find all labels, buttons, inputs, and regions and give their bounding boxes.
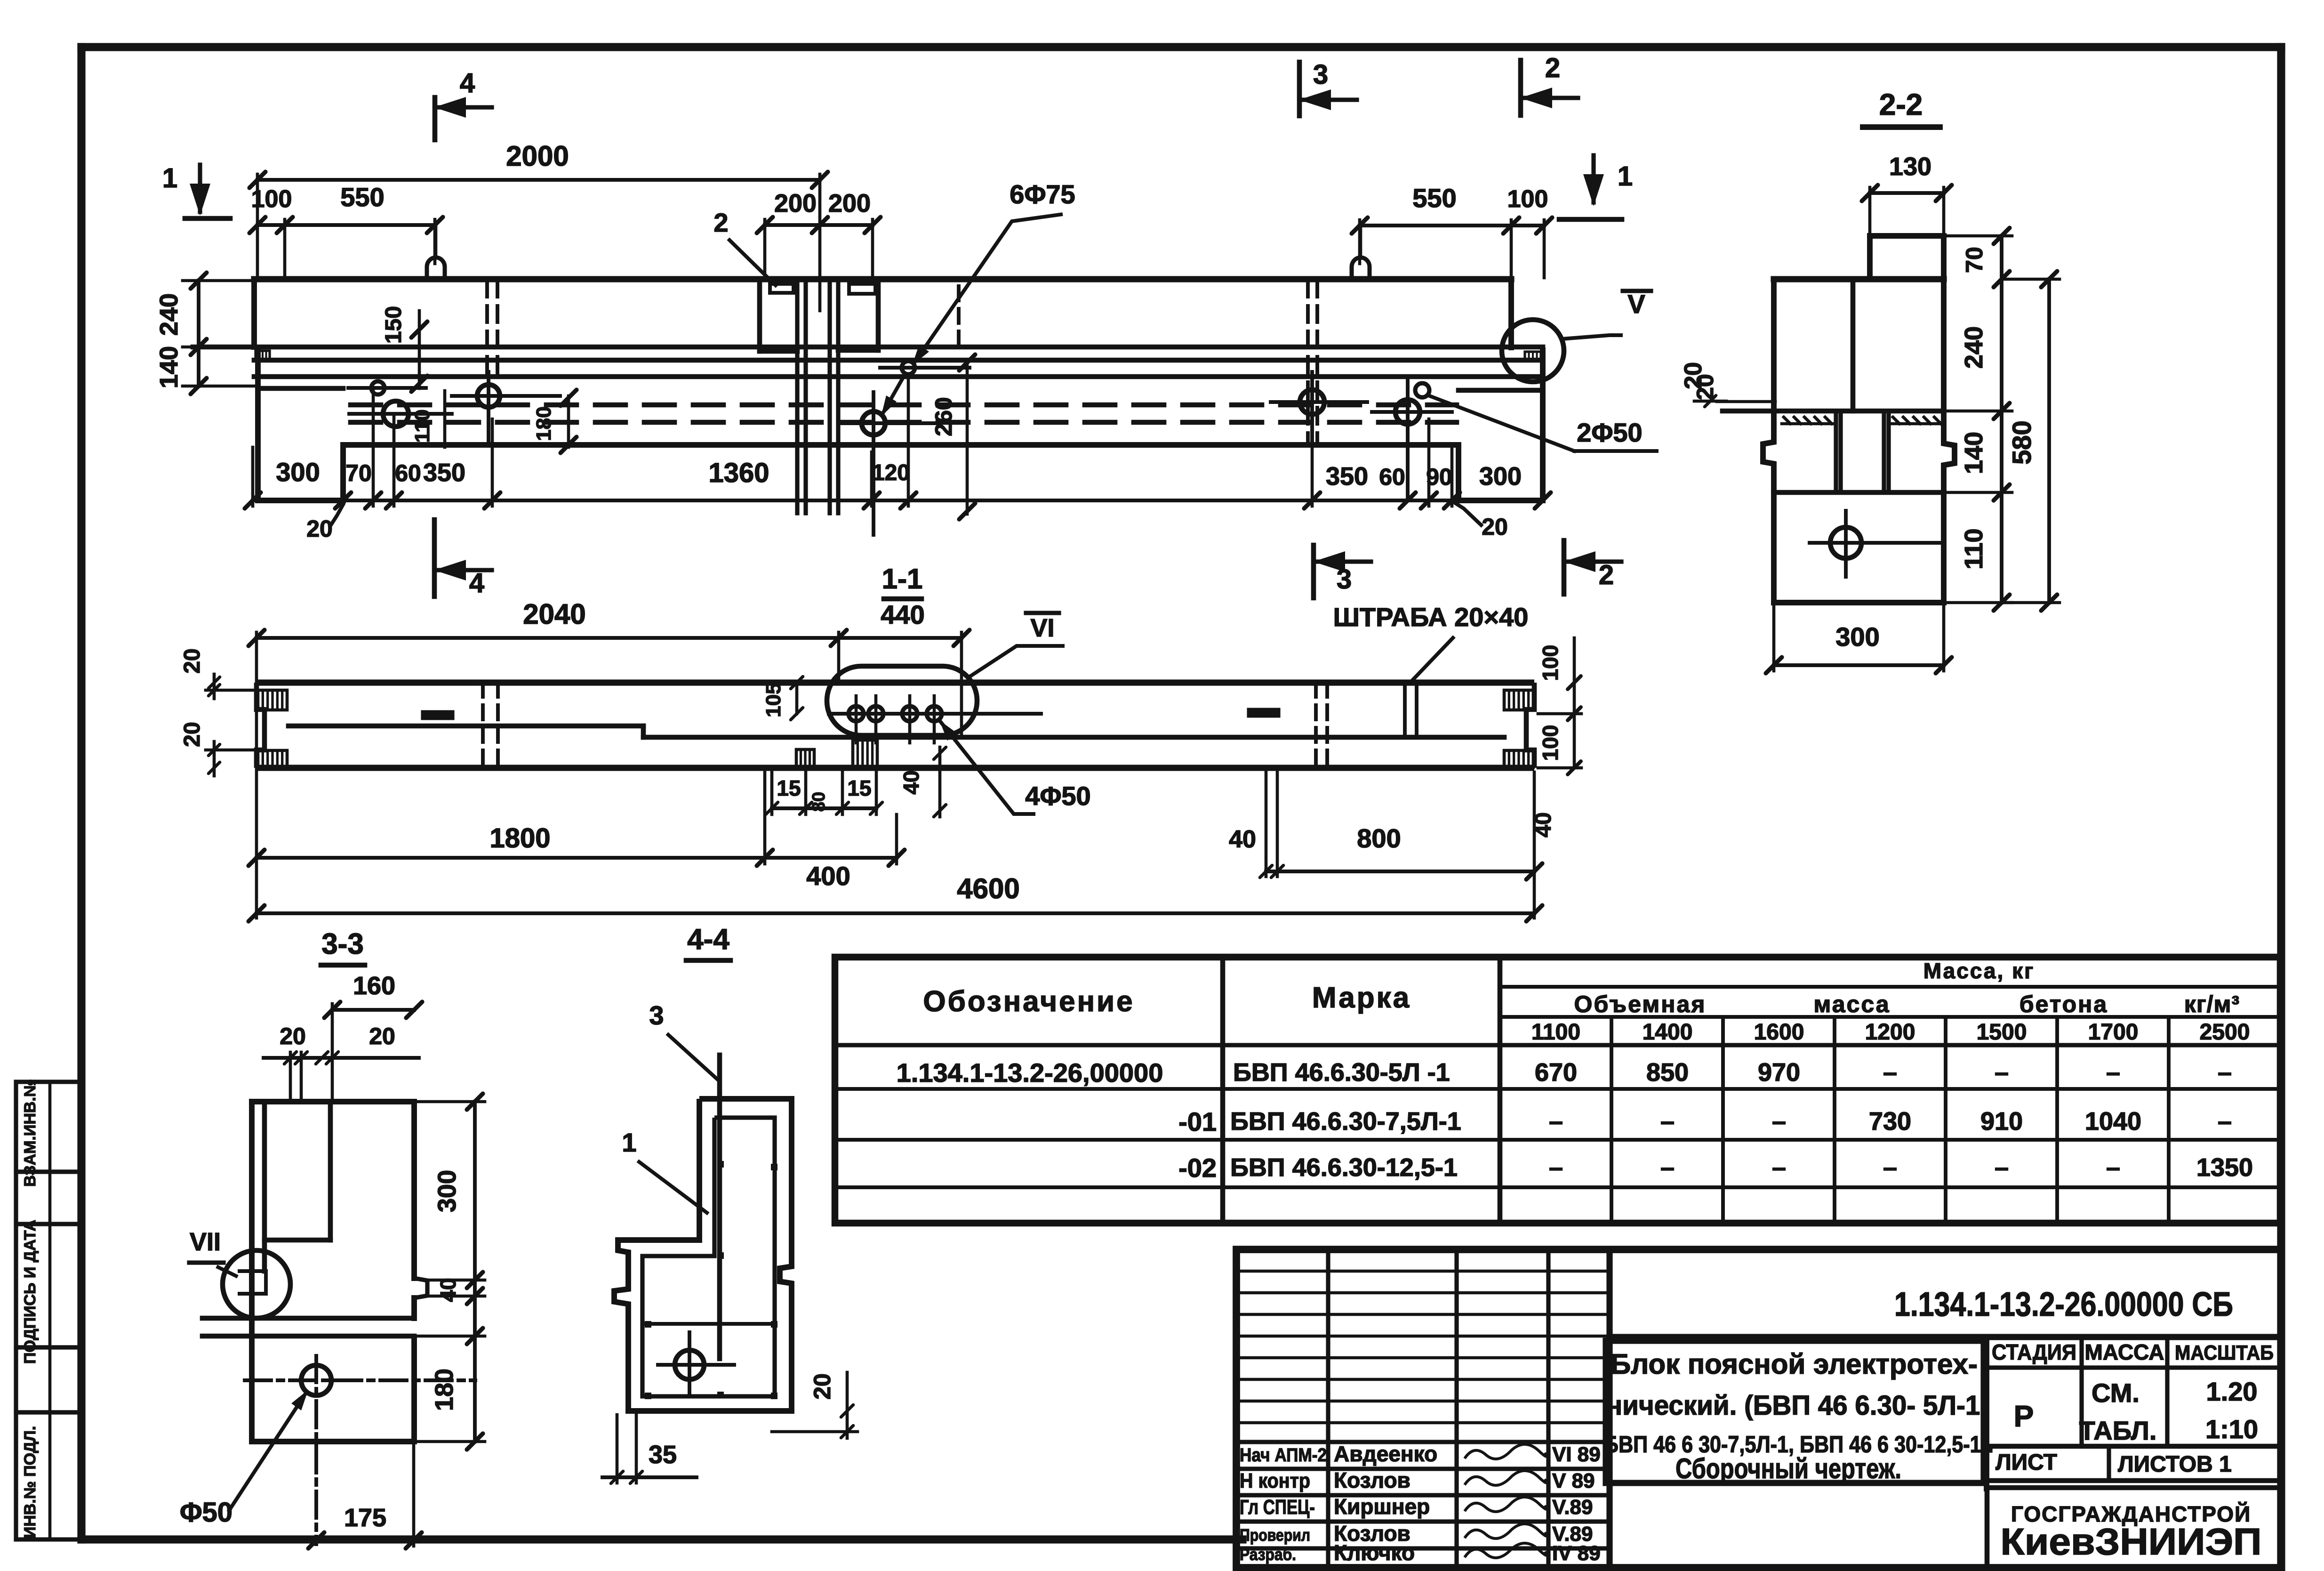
svg-text:110: 110 xyxy=(1960,528,1988,569)
svg-text:550: 550 xyxy=(1412,183,1456,213)
svg-text:100: 100 xyxy=(1538,645,1563,681)
svg-text:Козлов: Козлов xyxy=(1334,1468,1410,1492)
svg-text:1600: 1600 xyxy=(1754,1020,1804,1045)
svg-text:1.20: 1.20 xyxy=(2206,1377,2258,1406)
svg-text:Блок поясной электротех-: Блок поясной электротех- xyxy=(1611,1348,1978,1380)
svg-text:1.134.1-13.2-26,00000: 1.134.1-13.2-26,00000 xyxy=(897,1058,1163,1088)
svg-text:140: 140 xyxy=(155,346,183,388)
svg-text:4-4: 4-4 xyxy=(687,923,729,956)
svg-text:нический. (БВП 46 6.30- 5Л-1,: нический. (БВП 46 6.30- 5Л-1, xyxy=(1606,1390,1987,1421)
svg-text:МАСШТАБ: МАСШТАБ xyxy=(2175,1341,2274,1364)
svg-text:–: – xyxy=(1549,1107,1563,1136)
svg-text:2-2: 2-2 xyxy=(1879,88,1923,121)
svg-text:1: 1 xyxy=(622,1128,636,1157)
svg-text:300: 300 xyxy=(1479,462,1522,491)
svg-text:240: 240 xyxy=(155,293,183,336)
svg-text:Обозначение: Обозначение xyxy=(923,985,1134,1018)
svg-text:Р: Р xyxy=(2014,1399,2034,1433)
svg-text:2Φ50: 2Φ50 xyxy=(1577,418,1642,447)
svg-text:20: 20 xyxy=(280,1023,306,1049)
svg-text:1400: 1400 xyxy=(1643,1020,1693,1045)
svg-text:Проверил: Проверил xyxy=(1240,1525,1310,1545)
svg-text:1: 1 xyxy=(1618,161,1633,192)
svg-text:15: 15 xyxy=(777,776,801,800)
svg-text:–: – xyxy=(2106,1153,2120,1182)
svg-text:1: 1 xyxy=(162,163,177,193)
svg-text:кг/м³: кг/м³ xyxy=(2184,991,2240,1017)
svg-text:40: 40 xyxy=(436,1278,460,1302)
svg-text:–: – xyxy=(1995,1058,2009,1087)
svg-text:Марка: Марка xyxy=(1312,982,1411,1014)
svg-text:V 89: V 89 xyxy=(1552,1469,1595,1492)
svg-text:6Φ75: 6Φ75 xyxy=(1010,179,1075,209)
svg-text:200: 200 xyxy=(774,189,817,218)
svg-text:15: 15 xyxy=(847,776,871,800)
svg-text:4Φ50: 4Φ50 xyxy=(1025,781,1090,811)
svg-text:40: 40 xyxy=(899,770,923,794)
svg-text:ТАБЛ.: ТАБЛ. xyxy=(2079,1416,2157,1445)
svg-text:105: 105 xyxy=(762,683,785,717)
svg-text:Разраб.: Разраб. xyxy=(1240,1545,1296,1564)
svg-text:БВП 46.6.30-7,5Л-1: БВП 46.6.30-7,5Л-1 xyxy=(1230,1107,1461,1136)
svg-text:150: 150 xyxy=(381,306,406,344)
svg-text:КиевЗНИИЭП: КиевЗНИИЭП xyxy=(2001,1521,2262,1563)
svg-text:20: 20 xyxy=(369,1023,395,1049)
svg-text:140: 140 xyxy=(1960,432,1988,474)
svg-text:–: – xyxy=(1660,1107,1675,1136)
svg-text:ЛИСТОВ 1: ЛИСТОВ 1 xyxy=(2118,1452,2232,1477)
svg-text:–: – xyxy=(1883,1058,1897,1087)
svg-text:730: 730 xyxy=(1869,1107,1911,1136)
svg-text:IV 89: IV 89 xyxy=(1552,1542,1601,1565)
svg-text:2000: 2000 xyxy=(506,140,569,172)
svg-text:СМ.: СМ. xyxy=(2092,1378,2140,1408)
svg-text:Гл СПЕЦ-: Гл СПЕЦ- xyxy=(1240,1496,1315,1519)
svg-text:800: 800 xyxy=(1357,823,1401,853)
svg-text:970: 970 xyxy=(1758,1058,1800,1087)
svg-text:VI: VI xyxy=(1030,614,1054,642)
svg-text:Киршнер: Киршнер xyxy=(1334,1494,1430,1519)
svg-text:70: 70 xyxy=(345,460,372,486)
svg-text:ИНВ.№ ПОДЛ.: ИНВ.№ ПОДЛ. xyxy=(21,1426,39,1538)
svg-text:2: 2 xyxy=(713,208,728,237)
svg-text:Объемная: Объемная xyxy=(1574,991,1707,1017)
svg-text:350: 350 xyxy=(423,459,465,487)
svg-text:Нач АПМ-2: Нач АПМ-2 xyxy=(1240,1445,1327,1466)
svg-text:бетона: бетона xyxy=(2019,991,2108,1017)
svg-text:20: 20 xyxy=(180,648,205,673)
svg-text:–: – xyxy=(2218,1107,2232,1136)
svg-text:–: – xyxy=(1772,1153,1786,1182)
svg-text:1.134.1-13.2-26.00000 СБ: 1.134.1-13.2-26.00000 СБ xyxy=(1894,1286,2233,1323)
svg-text:1:10: 1:10 xyxy=(2205,1414,2258,1444)
svg-text:100: 100 xyxy=(251,185,292,213)
svg-text:910: 910 xyxy=(1980,1107,2023,1136)
svg-text:35: 35 xyxy=(649,1441,677,1469)
svg-text:VI 89: VI 89 xyxy=(1552,1443,1601,1466)
svg-text:-01: -01 xyxy=(1178,1107,1217,1136)
svg-text:Φ50: Φ50 xyxy=(180,1497,232,1528)
svg-text:1100: 1100 xyxy=(1531,1020,1580,1045)
svg-text:1-1: 1-1 xyxy=(882,563,923,595)
svg-text:60: 60 xyxy=(1379,464,1405,490)
svg-text:550: 550 xyxy=(340,182,384,212)
svg-text:3: 3 xyxy=(1313,59,1328,90)
svg-text:400: 400 xyxy=(806,861,850,891)
svg-text:–: – xyxy=(2218,1058,2232,1087)
svg-text:20: 20 xyxy=(1680,362,1707,389)
svg-text:2: 2 xyxy=(1545,53,1560,83)
svg-text:180: 180 xyxy=(430,1369,458,1411)
svg-text:580: 580 xyxy=(2007,420,2036,464)
svg-text:20: 20 xyxy=(306,516,333,542)
svg-text:4600: 4600 xyxy=(957,873,1019,904)
svg-text:440: 440 xyxy=(881,600,924,629)
svg-text:V: V xyxy=(1627,289,1645,319)
svg-text:70: 70 xyxy=(1961,247,1987,273)
svg-text:670: 670 xyxy=(1535,1058,1577,1087)
svg-text:110: 110 xyxy=(411,410,434,443)
svg-text:120: 120 xyxy=(872,460,910,485)
svg-text:1360: 1360 xyxy=(708,458,769,488)
svg-text:–: – xyxy=(2106,1058,2120,1087)
svg-text:100: 100 xyxy=(1538,725,1563,761)
svg-text:2040: 2040 xyxy=(523,598,585,630)
svg-text:ЛИСТ: ЛИСТ xyxy=(1995,1450,2057,1475)
svg-text:VII: VII xyxy=(190,1228,221,1256)
svg-text:2: 2 xyxy=(1599,560,1614,590)
svg-text:Авдеенко: Авдеенко xyxy=(1334,1442,1437,1466)
svg-text:ПОДПИСЬ И ДАТА: ПОДПИСЬ И ДАТА xyxy=(21,1220,39,1364)
svg-text:20: 20 xyxy=(180,722,205,747)
svg-text:130: 130 xyxy=(1889,153,1931,181)
svg-text:Масса, кг: Масса, кг xyxy=(1923,959,2035,983)
svg-text:40: 40 xyxy=(1229,826,1256,853)
svg-text:350: 350 xyxy=(1326,462,1368,491)
svg-text:300: 300 xyxy=(433,1170,461,1212)
svg-text:3: 3 xyxy=(649,1000,664,1030)
svg-text:1700: 1700 xyxy=(2088,1020,2139,1045)
svg-text:300: 300 xyxy=(1835,622,1879,652)
svg-text:160: 160 xyxy=(353,972,395,1000)
svg-text:СТАДИЯ: СТАДИЯ xyxy=(1992,1340,2076,1364)
svg-text:масса: масса xyxy=(1813,991,1890,1017)
svg-text:2500: 2500 xyxy=(2200,1020,2250,1045)
svg-text:–: – xyxy=(1995,1153,2009,1182)
svg-text:1040: 1040 xyxy=(2085,1107,2141,1136)
svg-text:–: – xyxy=(1772,1107,1786,1136)
svg-text:МАССА: МАССА xyxy=(2085,1340,2164,1364)
svg-text:20: 20 xyxy=(1482,514,1508,540)
svg-text:-02: -02 xyxy=(1178,1153,1217,1183)
svg-text:1200: 1200 xyxy=(1865,1020,1915,1045)
svg-text:–: – xyxy=(1883,1153,1897,1182)
svg-text:20: 20 xyxy=(809,1373,835,1400)
svg-text:100: 100 xyxy=(1507,185,1548,213)
svg-text:200: 200 xyxy=(828,189,871,218)
svg-text:БВП 46.6.30-5Л -1: БВП 46.6.30-5Л -1 xyxy=(1233,1058,1450,1087)
svg-text:80: 80 xyxy=(809,792,829,812)
svg-text:60: 60 xyxy=(395,460,421,486)
svg-text:Ключко: Ключко xyxy=(1334,1540,1415,1565)
svg-text:180: 180 xyxy=(532,406,555,441)
svg-text:Сборочный чертеж.: Сборочный чертеж. xyxy=(1675,1453,1901,1484)
svg-text:–: – xyxy=(1549,1153,1563,1182)
svg-text:240: 240 xyxy=(1960,326,1988,369)
svg-text:V.89: V.89 xyxy=(1552,1496,1593,1519)
svg-text:Н контр: Н контр xyxy=(1240,1469,1310,1492)
svg-text:1500: 1500 xyxy=(1977,1020,2027,1045)
svg-text:1800: 1800 xyxy=(489,823,550,854)
svg-text:1350: 1350 xyxy=(2196,1153,2253,1182)
svg-text:4: 4 xyxy=(469,568,484,598)
svg-text:260: 260 xyxy=(930,397,957,436)
svg-text:850: 850 xyxy=(1646,1058,1689,1087)
svg-text:3-3: 3-3 xyxy=(321,928,364,960)
svg-text:4: 4 xyxy=(460,68,475,98)
svg-text:175: 175 xyxy=(344,1504,386,1532)
svg-text:–: – xyxy=(1660,1153,1675,1182)
svg-text:ШТРАБА 20×40: ШТРАБА 20×40 xyxy=(1333,602,1529,632)
svg-text:300: 300 xyxy=(276,457,320,487)
svg-text:БВП 46.6.30-12,5-1: БВП 46.6.30-12,5-1 xyxy=(1230,1153,1458,1182)
